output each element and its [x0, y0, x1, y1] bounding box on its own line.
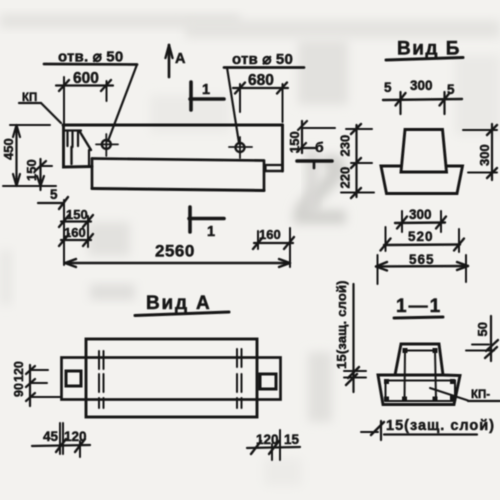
svg-text:450: 450: [1, 138, 16, 160]
section mark 1 bottom: [189, 207, 224, 240]
plan outer rect (flange): [86, 339, 257, 417]
svg-text:1: 1: [207, 224, 215, 240]
dim 50 right of section: [466, 316, 498, 361]
svg-text:Вид А: Вид А: [146, 293, 211, 314]
svg-text:КП-: КП-: [471, 389, 490, 401]
dim 2560: [65, 242, 290, 268]
beam side view: left end embed detail hatch: [65, 131, 91, 166]
svg-text:520: 520: [408, 229, 434, 244]
section B upper block: [401, 130, 447, 173]
view A direction arrow: [166, 45, 187, 77]
label KP left: [19, 92, 61, 123]
svg-text:220: 220: [338, 167, 353, 189]
svg-text:120: 120: [12, 361, 26, 382]
beam side view: lower block bottom edge: [92, 189, 264, 191]
dim 15 zasch sloy bottom: [361, 418, 495, 440]
beam side view: underside mid line: [92, 159, 263, 161]
leader KP: [430, 388, 500, 401]
svg-text:565: 565: [409, 252, 435, 267]
section mark 1 top: [190, 82, 224, 110]
svg-text:Вид Б: Вид Б: [397, 39, 461, 60]
plan right square hole: [260, 374, 276, 389]
svg-text:230: 230: [338, 135, 353, 157]
dim 150 and view b mark right of beam: [287, 121, 335, 168]
plan inner rect (beam top): [62, 358, 281, 400]
dim 520: [381, 227, 465, 252]
dim 230/220 left of section: [338, 124, 375, 198]
dim 120/90 left of plan: [12, 361, 60, 406]
svg-text:300: 300: [477, 144, 492, 166]
dim 160 lower: [59, 200, 93, 265]
dim 160 lower right: [253, 227, 294, 267]
beam side view: top edge: [63, 124, 283, 127]
ghost numeral bleed-through: [293, 154, 346, 224]
svg-text:15(защ. слой): 15(защ. слой): [386, 418, 495, 434]
svg-text:5: 5: [50, 187, 58, 202]
title Vid A: [135, 293, 229, 316]
svg-text:45: 45: [43, 429, 59, 444]
svg-text:А: А: [175, 51, 186, 67]
label otv d50 left: [44, 49, 137, 142]
dim 5 lower left: [38, 187, 68, 209]
dim 45 120 below plan: [32, 423, 90, 457]
dim 565: [376, 252, 468, 284]
title 1-1: [394, 296, 443, 318]
svg-text:1: 1: [202, 82, 210, 98]
dim 300 right of section: [463, 124, 497, 180]
plan hole centreline marks right: [237, 349, 242, 408]
svg-text:отв ⌀ 50: отв ⌀ 50: [232, 51, 293, 68]
beam side view: lower block left edge: [91, 159, 94, 189]
svg-text:2560: 2560: [155, 242, 195, 261]
svg-text:15(защ. слой): 15(защ. слой): [334, 280, 349, 369]
svg-text:1—1: 1—1: [396, 296, 442, 317]
section B lower block: [381, 166, 463, 194]
svg-text:300: 300: [410, 78, 433, 93]
dim 150 left inner: [24, 159, 52, 190]
svg-text:б: б: [315, 139, 324, 155]
dim 15 zasch sloy vertical left: [334, 280, 366, 392]
dim 300 bottom: [395, 207, 446, 232]
title Vid B: [386, 39, 463, 61]
section 1-1 stem stirrup: [403, 348, 438, 400]
dim 600: [56, 70, 113, 124]
svg-text:90: 90: [12, 383, 26, 397]
svg-text:300: 300: [409, 207, 432, 222]
svg-text:5: 5: [384, 80, 392, 95]
dim 5 300 5 top: [383, 78, 462, 114]
dim 680: [233, 72, 288, 122]
section 1-1 stem outline: [395, 344, 443, 375]
beam side view: right end edge: [281, 125, 284, 171]
section 1-1 flange stirrup: [384, 379, 455, 402]
beam side view: left end edge: [64, 125, 93, 167]
dim 150 lower: [59, 207, 93, 227]
dim 450 left: [1, 125, 56, 186]
svg-text:15: 15: [284, 432, 300, 447]
beam side view: lower block right edge: [263, 161, 266, 191]
section 1-1 flange outline: [378, 375, 460, 405]
svg-text:50: 50: [475, 322, 490, 336]
label otv d50 right: [224, 51, 304, 143]
plan hole centreline marks left: [99, 351, 104, 408]
svg-text:680: 680: [248, 72, 274, 89]
hole 2 circle: [229, 137, 252, 158]
plan left square hole: [66, 371, 81, 386]
beam side view: right end step lines: [264, 165, 283, 171]
dim 120 15 below plan right: [247, 430, 300, 460]
hole 1 circle: [96, 134, 118, 156]
